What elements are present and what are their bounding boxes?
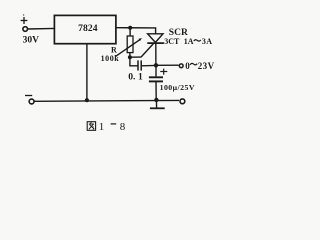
minus sign <box>25 95 32 97</box>
wire output <box>156 64 179 66</box>
node cathode junction <box>154 63 158 67</box>
wire gate horizontal <box>130 56 141 58</box>
SCR cathode bar <box>147 42 164 44</box>
svg-text:3A: 3A <box>202 37 213 46</box>
capacitor C1 right lead <box>141 64 156 66</box>
svg-text:7824: 7824 <box>78 23 98 34</box>
capacitor C1 plates <box>137 60 139 70</box>
svg-text:1: 1 <box>138 72 143 83</box>
capacitor C1 0.1 left lead <box>130 57 138 66</box>
SCR gate diagonal <box>141 44 153 58</box>
node cap ground junction <box>154 98 158 102</box>
capacitor C2 top lead <box>155 65 157 76</box>
ground rail <box>34 99 179 102</box>
ground symbol <box>155 100 157 108</box>
node gate junction <box>128 55 132 59</box>
svg-text:3CT: 3CT <box>164 37 180 46</box>
label plus C2 drawn <box>160 71 167 73</box>
wire 7824 ground pin <box>86 44 88 101</box>
thyristor SCR triangle <box>148 34 163 43</box>
tilde of output label <box>190 63 197 64</box>
tilde of 3CT label <box>194 40 201 41</box>
terminal T3 minus <box>29 99 34 104</box>
ink speck <box>23 14 24 15</box>
node ground pin junction <box>85 98 89 102</box>
resistor R arrow (rheostat) <box>116 39 141 56</box>
terminal T2 output <box>179 64 183 68</box>
terminal T1 plus input <box>23 27 28 32</box>
svg-text:100k: 100k <box>101 54 120 63</box>
resistor R top lead <box>129 28 131 36</box>
capacitor C2 bottom lead <box>155 81 157 100</box>
svg-text:100μ/25V: 100μ/25V <box>160 83 195 92</box>
svg-text:23V: 23V <box>198 61 215 71</box>
caption dash <box>111 123 117 125</box>
svg-text:1A: 1A <box>184 37 194 46</box>
SCR cathode lead <box>155 43 157 65</box>
label plus input drawn <box>21 20 28 22</box>
terminal T4 bottom right <box>180 99 185 104</box>
resistor R bottom lead <box>129 53 131 58</box>
svg-text:8: 8 <box>120 121 126 133</box>
resistor R body <box>127 36 133 53</box>
regulator U1 7824 box <box>54 15 116 43</box>
svg-text:30V: 30V <box>23 35 39 45</box>
tildes drawn <box>190 40 201 65</box>
capacitor C2 plates <box>149 76 163 78</box>
svg-text:0: 0 <box>185 61 190 71</box>
wire 7824 output to SCR anode <box>116 28 156 34</box>
svg-text:0.: 0. <box>128 72 135 83</box>
caption glyph tu (figure 图) <box>87 122 95 131</box>
wire input to 7824 <box>28 27 55 30</box>
node top junction <box>128 26 132 30</box>
svg-text:1: 1 <box>99 121 105 133</box>
